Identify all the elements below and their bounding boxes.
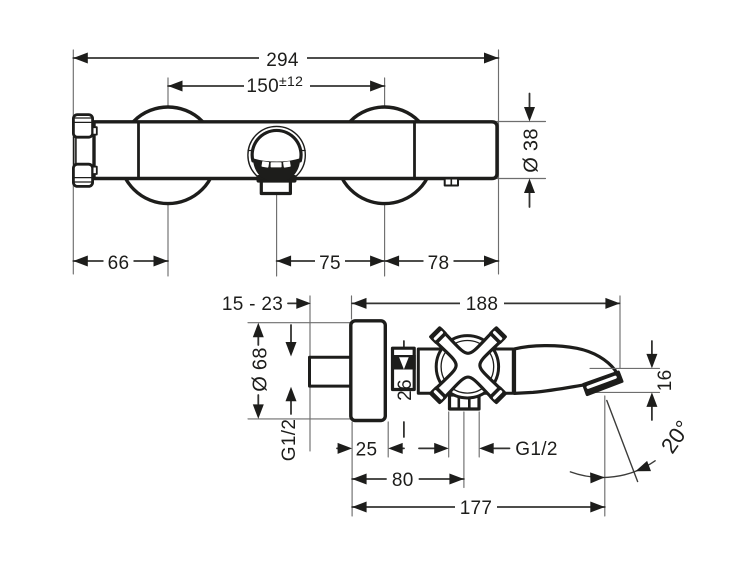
- svg-text:294: 294: [266, 50, 299, 71]
- svg-text:G1/2: G1/2: [279, 419, 300, 461]
- svg-text:G1/2: G1/2: [515, 439, 557, 460]
- svg-text:25: 25: [356, 440, 378, 461]
- svg-text:177: 177: [460, 498, 493, 519]
- svg-text:78: 78: [428, 253, 450, 274]
- svg-text:188: 188: [466, 294, 499, 315]
- svg-text:15 - 23: 15 - 23: [222, 294, 283, 315]
- svg-text:16: 16: [655, 370, 676, 392]
- svg-text:75: 75: [319, 253, 341, 274]
- svg-text:26: 26: [395, 379, 416, 401]
- svg-text:Ø 68: Ø 68: [250, 347, 272, 392]
- svg-text:Ø 38: Ø 38: [521, 128, 543, 173]
- svg-text:80: 80: [392, 470, 414, 491]
- svg-text:66: 66: [108, 253, 130, 274]
